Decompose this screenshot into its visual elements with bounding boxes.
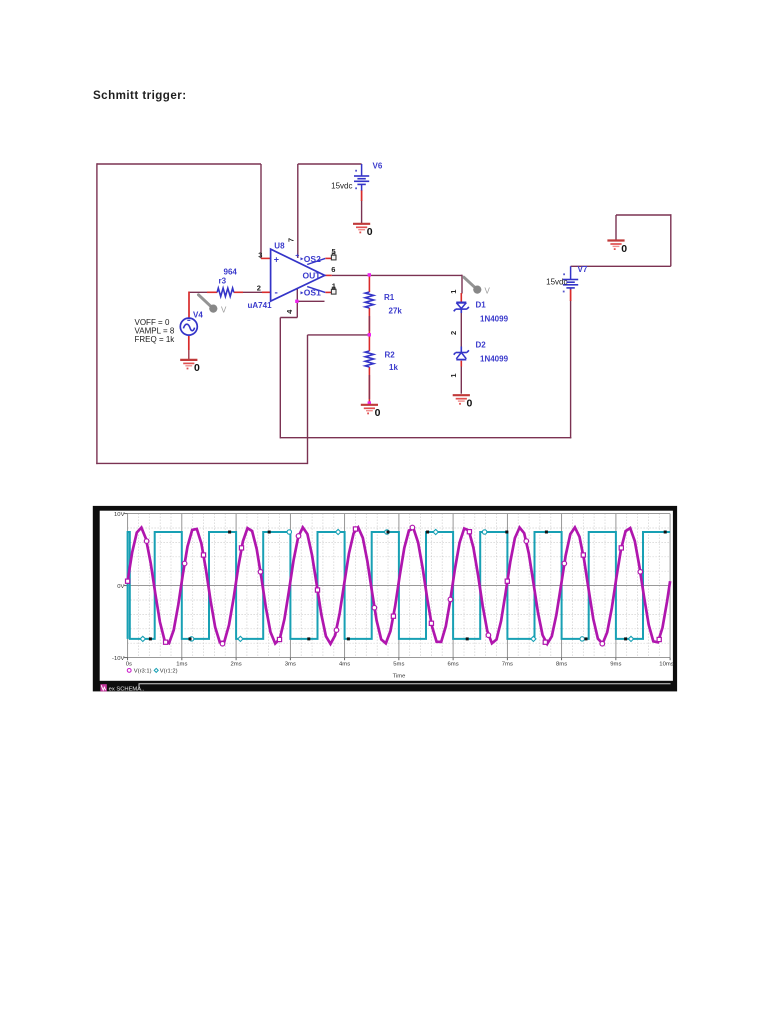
- svg-text:V6: V6: [373, 162, 383, 171]
- svg-text:8ms: 8ms: [556, 662, 567, 668]
- svg-text:OS2: OS2: [304, 254, 321, 264]
- svg-text:5ms: 5ms: [393, 662, 404, 668]
- svg-text:V: V: [485, 287, 491, 296]
- svg-text:R2: R2: [385, 351, 396, 360]
- svg-text:V4: V4: [193, 311, 203, 320]
- svg-text:3ms: 3ms: [285, 662, 296, 668]
- svg-text:1N4099: 1N4099: [480, 355, 509, 364]
- svg-text:15vdc: 15vdc: [546, 278, 567, 287]
- svg-text:-: -: [275, 288, 278, 299]
- svg-text:1ms: 1ms: [176, 662, 187, 668]
- svg-text:OUT: OUT: [303, 270, 322, 280]
- svg-text:V(r1:2): V(r1:2): [160, 669, 178, 675]
- svg-text:9ms: 9ms: [610, 662, 621, 668]
- svg-text:Time: Time: [393, 674, 406, 680]
- svg-text:D1: D1: [476, 301, 487, 310]
- svg-text:R1: R1: [384, 293, 395, 302]
- svg-text:7ms: 7ms: [502, 662, 513, 668]
- svg-text:2: 2: [257, 284, 261, 293]
- svg-text:3: 3: [258, 251, 262, 260]
- svg-text:-10V: -10V: [112, 656, 125, 662]
- svg-text:2ms: 2ms: [231, 662, 242, 668]
- svg-text:U8: U8: [274, 242, 285, 251]
- svg-text:10ms: 10ms: [659, 662, 673, 668]
- svg-text:1k: 1k: [389, 363, 398, 372]
- svg-text:+: +: [274, 254, 279, 264]
- svg-text:4ms: 4ms: [339, 662, 350, 668]
- svg-text:0: 0: [621, 243, 627, 255]
- svg-text:1: 1: [332, 281, 336, 290]
- svg-text:r3: r3: [219, 277, 227, 286]
- svg-text:0s: 0s: [126, 662, 132, 668]
- svg-text:V(r3:1): V(r3:1): [134, 669, 152, 675]
- svg-text:2: 2: [449, 331, 458, 335]
- svg-text:27k: 27k: [389, 307, 403, 316]
- svg-text:V7: V7: [578, 265, 588, 274]
- svg-text:1: 1: [449, 373, 458, 377]
- svg-text:OS1: OS1: [304, 287, 321, 297]
- svg-text:1: 1: [449, 290, 458, 294]
- svg-text:15vdc: 15vdc: [331, 182, 352, 191]
- svg-text:0: 0: [467, 398, 473, 410]
- svg-text:10V: 10V: [114, 512, 125, 518]
- svg-text:FREQ = 1k: FREQ = 1k: [135, 335, 176, 344]
- svg-text:Schmitt trigger:: Schmitt trigger:: [93, 89, 187, 102]
- svg-text:0: 0: [194, 362, 200, 374]
- svg-text:6: 6: [331, 265, 335, 274]
- svg-text:+: +: [295, 253, 299, 260]
- svg-text:uA741: uA741: [248, 301, 273, 310]
- svg-text:D2: D2: [476, 341, 487, 350]
- svg-text:4: 4: [285, 309, 294, 314]
- svg-text:0: 0: [367, 226, 373, 238]
- svg-text:7: 7: [287, 238, 296, 242]
- svg-text:0V: 0V: [117, 584, 124, 590]
- svg-text:V: V: [221, 306, 227, 315]
- svg-text:1N4099: 1N4099: [480, 315, 509, 324]
- svg-text:0: 0: [375, 407, 381, 419]
- svg-text:6ms: 6ms: [448, 662, 459, 668]
- svg-text:964: 964: [224, 268, 238, 277]
- svg-text:5: 5: [332, 247, 336, 256]
